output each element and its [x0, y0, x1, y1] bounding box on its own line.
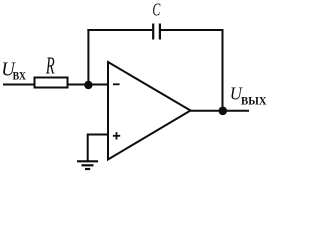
node output junction dot	[219, 107, 228, 116]
wire non-inverting input	[88, 134, 107, 136]
capacitor C	[152, 24, 154, 40]
plus label pin 3	[113, 132, 120, 139]
wire input segment	[3, 84, 34, 86]
op-amp U1	[108, 62, 191, 160]
resistor R	[35, 78, 68, 88]
wire feedback vertical left	[87, 29, 89, 85]
wire feedback vertical right	[222, 29, 224, 111]
svg-text:C: C	[152, 0, 161, 20]
wire feedback top left of capacitor	[87, 29, 152, 31]
wire output	[191, 110, 250, 112]
wire feedback top right of capacitor	[161, 29, 224, 31]
svg-text:ВХ: ВХ	[13, 69, 26, 82]
wire resistor to inverting input	[69, 84, 108, 86]
node A junction dot	[84, 81, 92, 89]
svg-text:ВЫХ: ВЫХ	[241, 95, 267, 108]
ground stem wire	[87, 134, 89, 162]
minus label pin 2	[113, 83, 120, 85]
svg-text:R: R	[45, 53, 55, 80]
ground	[77, 161, 98, 169]
